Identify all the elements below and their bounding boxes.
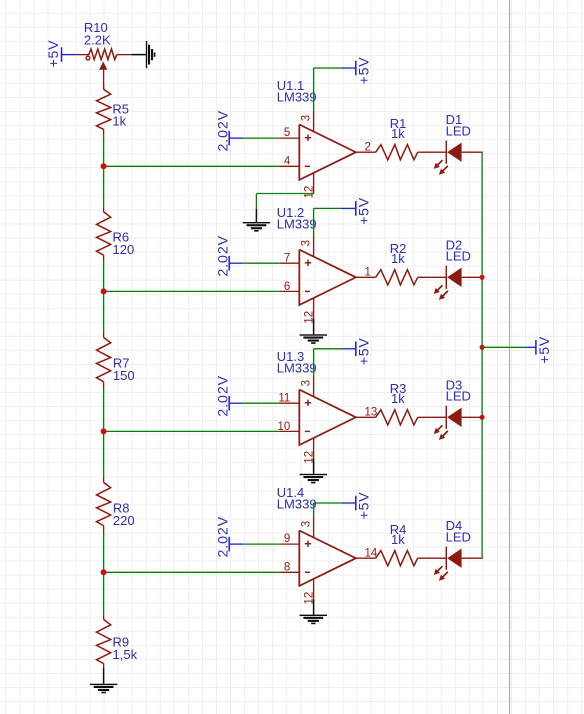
svg-text:LM339: LM339 bbox=[277, 361, 317, 376]
svg-text:12: 12 bbox=[304, 186, 316, 199]
power +5V symbol bbox=[342, 207, 356, 209]
ground below U1.3 bbox=[313, 459, 315, 474]
op-amp comparator U1.2 LM339 bbox=[299, 250, 356, 305]
LED D4 bbox=[445, 547, 447, 570]
svg-text:150: 150 bbox=[113, 368, 135, 383]
node bus-D2 bbox=[480, 275, 485, 280]
svg-text:1k: 1k bbox=[112, 114, 126, 129]
pin 10 (- input) bbox=[279, 430, 299, 432]
wire to +5V bbox=[313, 68, 315, 111]
svg-text:8: 8 bbox=[284, 562, 290, 574]
wire ladder segment J1-R6 bbox=[103, 166, 105, 207]
ground below R9 bbox=[103, 668, 105, 683]
svg-text:120: 120 bbox=[113, 242, 135, 257]
wire LED anode to bus bbox=[462, 276, 483, 278]
resistor R2 bbox=[376, 270, 418, 285]
pin 7 (+ input) bbox=[279, 262, 299, 264]
pin 3 (V+) bbox=[313, 376, 315, 397]
resistor R1 bbox=[376, 145, 418, 160]
svg-text:220: 220 bbox=[113, 513, 135, 528]
wire LED anode to bus bbox=[462, 416, 483, 418]
pin 9 (+ input) bbox=[279, 543, 299, 545]
trimmer potentiometer R10 bbox=[89, 49, 117, 60]
wire junction row 3 bbox=[104, 430, 280, 432]
wire LED anode to bus bbox=[462, 151, 483, 153]
svg-text:1k: 1k bbox=[391, 251, 405, 266]
resistor R7 bbox=[103, 333, 105, 338]
LED D3 bbox=[445, 406, 447, 429]
wire bbox=[229, 137, 243, 139]
pin 1 (output) bbox=[356, 276, 376, 278]
node junction J2 bbox=[101, 288, 107, 294]
svg-text:6: 6 bbox=[284, 281, 290, 293]
wire bbox=[77, 54, 89, 56]
wire to +5V bbox=[313, 503, 315, 517]
svg-text:10: 10 bbox=[278, 421, 291, 433]
pin 12 (GND) bbox=[313, 579, 315, 600]
wire ladder segment R5-J1 bbox=[103, 136, 105, 166]
svg-text:+5V: +5V bbox=[357, 57, 373, 85]
wire bbox=[229, 402, 243, 404]
wire junction row 1 bbox=[104, 165, 280, 167]
pin 12 (GND) bbox=[313, 173, 315, 194]
resistor R3 bbox=[376, 410, 418, 425]
power +5V symbol bbox=[342, 348, 356, 350]
svg-text:LED: LED bbox=[446, 249, 471, 264]
node junction J1 bbox=[101, 163, 107, 169]
pin 12 (GND) bbox=[313, 438, 315, 459]
op-amp comparator U1.3 LM339 bbox=[299, 390, 356, 445]
svg-text:LED: LED bbox=[446, 389, 471, 404]
wire bbox=[243, 402, 279, 404]
pin 12 (GND) bbox=[313, 298, 315, 319]
resistor R5 bbox=[103, 84, 105, 89]
ground below U1.4 bbox=[313, 600, 315, 615]
wire bbox=[229, 543, 243, 545]
svg-text:LM339: LM339 bbox=[277, 496, 317, 511]
pin 3 (V+) bbox=[313, 111, 315, 132]
svg-text:+5V: +5V bbox=[357, 197, 373, 225]
svg-text:+5V: +5V bbox=[537, 336, 553, 364]
ground below U1.2 bbox=[313, 319, 315, 334]
svg-text:+5V: +5V bbox=[357, 492, 373, 520]
pin 2 (output) bbox=[356, 151, 376, 153]
wire bbox=[117, 54, 131, 56]
wire wiper to R5 bbox=[103, 69, 105, 89]
wire LED anode to bus bbox=[462, 557, 483, 559]
node junction J3 bbox=[101, 428, 107, 434]
pin 8 (- input) bbox=[279, 571, 299, 573]
wire bus to +5V bbox=[482, 346, 525, 348]
wire bbox=[418, 416, 447, 418]
svg-text:2.2K: 2.2K bbox=[84, 32, 111, 47]
wire bbox=[418, 151, 447, 153]
node bus-D3 bbox=[480, 415, 485, 420]
wire junction row 4 bbox=[104, 571, 280, 573]
pin 5 (+ input) bbox=[279, 137, 299, 139]
svg-text:1,5k: 1,5k bbox=[113, 647, 138, 662]
svg-text:7: 7 bbox=[284, 252, 290, 264]
svg-text:1k: 1k bbox=[391, 126, 405, 141]
resistor R9 bbox=[103, 615, 105, 620]
wire bbox=[62, 54, 77, 56]
svg-text:3: 3 bbox=[300, 115, 312, 121]
power +5V symbol bbox=[342, 502, 356, 504]
wire bbox=[418, 276, 447, 278]
pin 3 (V+) bbox=[313, 236, 315, 257]
LED D1 bbox=[445, 141, 447, 164]
sheet frame border bbox=[509, 0, 511, 714]
svg-text:9: 9 bbox=[284, 533, 290, 545]
op-amp comparator U1.1 LM339 bbox=[299, 125, 356, 180]
wire LED supply bus bbox=[481, 152, 483, 558]
svg-text:LM339: LM339 bbox=[277, 216, 317, 231]
wire ladder segment J2-R7 bbox=[103, 291, 105, 332]
resistor R8 bbox=[103, 478, 105, 483]
wire ladder segment R8-J4 bbox=[103, 532, 105, 572]
pin 6 (- input) bbox=[279, 290, 299, 292]
svg-text:1k: 1k bbox=[391, 391, 405, 406]
svg-text:1k: 1k bbox=[391, 532, 405, 547]
power +5V symbol right bbox=[525, 346, 536, 348]
svg-text:+5V: +5V bbox=[46, 40, 62, 68]
svg-text:+5V: +5V bbox=[357, 337, 373, 365]
wire ladder segment R6-J2 bbox=[103, 262, 105, 292]
ground below U1.1 bbox=[255, 209, 257, 222]
wire bbox=[243, 262, 279, 264]
node junction J4 bbox=[101, 569, 107, 575]
svg-text:3: 3 bbox=[300, 380, 312, 386]
svg-text:LED: LED bbox=[446, 123, 471, 138]
resistor R6 bbox=[103, 207, 105, 212]
wire bbox=[243, 543, 279, 545]
pin 3 (V+) bbox=[313, 517, 315, 538]
wire pin12 to ground bbox=[256, 193, 313, 195]
pin 4 (- input) bbox=[279, 165, 299, 167]
resistor R4 bbox=[376, 551, 418, 566]
node bus +5V tap bbox=[480, 345, 485, 350]
wire ladder segment J3-R8 bbox=[103, 432, 105, 478]
wire junction row 2 bbox=[104, 290, 280, 292]
pin 11 (+ input) bbox=[279, 402, 299, 404]
pin 13 (output) bbox=[356, 416, 376, 418]
svg-text:11: 11 bbox=[278, 392, 290, 404]
pin 14 (output) bbox=[356, 557, 376, 559]
ground (earth) right of R10 bbox=[131, 54, 146, 56]
LED D2 bbox=[445, 266, 447, 289]
wire bbox=[243, 137, 279, 139]
svg-text:3: 3 bbox=[300, 240, 312, 246]
wire ladder segment R7-J3 bbox=[103, 388, 105, 432]
wire bbox=[418, 557, 447, 559]
svg-text:3: 3 bbox=[300, 521, 312, 527]
svg-text:2: 2 bbox=[365, 141, 371, 153]
wire to +5V bbox=[313, 208, 315, 235]
wire to +5V bbox=[313, 349, 315, 376]
wire bbox=[229, 262, 243, 264]
svg-text:1: 1 bbox=[365, 266, 371, 278]
svg-text:5: 5 bbox=[284, 127, 290, 139]
wire ladder segment J4-R9 bbox=[103, 572, 105, 615]
op-amp comparator U1.4 LM339 bbox=[299, 531, 356, 586]
power +5V symbol bbox=[342, 67, 356, 69]
svg-text:4: 4 bbox=[284, 156, 291, 168]
svg-text:LM339: LM339 bbox=[277, 90, 317, 105]
svg-text:LED: LED bbox=[446, 529, 471, 544]
